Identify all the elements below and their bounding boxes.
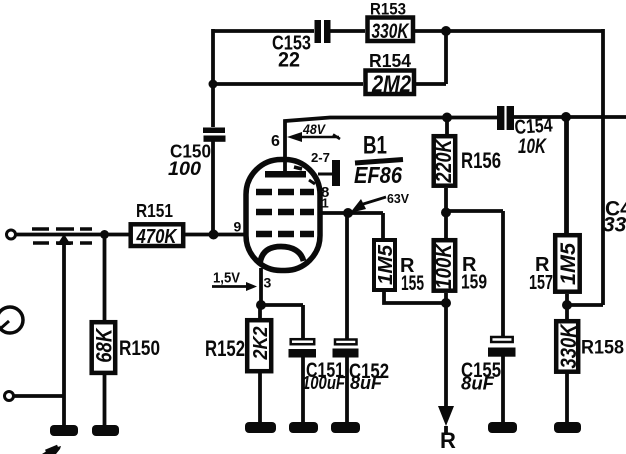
svg-text:330K: 330K xyxy=(372,20,410,43)
svg-text:22: 22 xyxy=(278,49,300,72)
svg-text:100uF: 100uF xyxy=(302,373,346,393)
svg-text:8uF: 8uF xyxy=(350,373,383,393)
svg-text:B1: B1 xyxy=(363,132,387,160)
svg-text:33: 33 xyxy=(603,214,626,237)
svg-text:R151: R151 xyxy=(136,201,173,221)
svg-text:2K2: 2K2 xyxy=(250,327,272,361)
svg-text:R156: R156 xyxy=(461,148,501,173)
svg-text:3: 3 xyxy=(264,275,272,291)
svg-text:1M5: 1M5 xyxy=(557,243,580,285)
svg-text:1: 1 xyxy=(322,196,329,211)
svg-text:9: 9 xyxy=(234,219,242,235)
svg-text:48V: 48V xyxy=(302,121,326,137)
svg-text:330K: 330K xyxy=(556,323,581,369)
svg-text:155: 155 xyxy=(401,272,424,295)
svg-text:100K: 100K xyxy=(431,242,456,289)
svg-text:6: 6 xyxy=(271,133,280,150)
svg-text:220K: 220K xyxy=(431,138,456,184)
svg-text:10K: 10K xyxy=(518,135,547,158)
svg-text:8uF: 8uF xyxy=(461,374,495,394)
svg-text:R153: R153 xyxy=(370,0,406,19)
svg-text:1M5: 1M5 xyxy=(375,244,397,285)
svg-text:R: R xyxy=(440,428,456,453)
svg-text:157: 157 xyxy=(529,272,553,294)
svg-text:R158: R158 xyxy=(581,338,624,359)
svg-text:R154: R154 xyxy=(369,51,411,71)
svg-text:EF86: EF86 xyxy=(354,162,402,188)
svg-text:68K: 68K xyxy=(92,327,117,363)
svg-text:2-7: 2-7 xyxy=(311,151,330,165)
svg-text:2M2: 2M2 xyxy=(371,71,411,98)
svg-text:159: 159 xyxy=(461,272,487,294)
svg-text:100: 100 xyxy=(168,159,201,180)
svg-text:470K: 470K xyxy=(136,226,178,248)
svg-text:1,5V: 1,5V xyxy=(213,270,240,287)
svg-text:63V: 63V xyxy=(387,191,409,206)
svg-text:R150: R150 xyxy=(119,337,160,360)
svg-text:R152: R152 xyxy=(205,336,245,361)
